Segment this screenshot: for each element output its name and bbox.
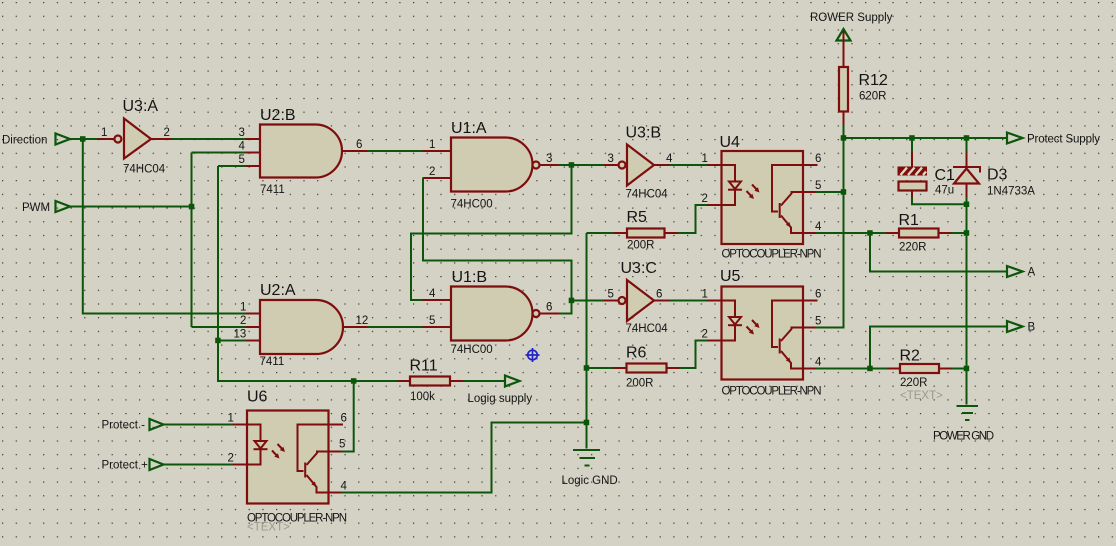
svg-text:U2:B: U2:B xyxy=(260,107,296,124)
wire B branch xyxy=(870,327,1007,369)
wire U2:B output to U1:A pin1 xyxy=(367,150,423,152)
svg-text:4: 4 xyxy=(239,141,246,153)
svg-text:4: 4 xyxy=(666,153,673,165)
svg-text:Protect -: Protect - xyxy=(102,420,146,432)
inverter U3:B xyxy=(604,125,673,201)
ground Logic GND xyxy=(562,450,618,487)
svg-text:Logic GND: Logic GND xyxy=(562,475,618,487)
svg-text:5: 5 xyxy=(815,180,821,192)
optocoupler U4 xyxy=(702,134,823,261)
resistor R6 xyxy=(614,345,680,390)
ground POWER GND xyxy=(933,406,994,443)
svg-text:5: 5 xyxy=(239,154,245,166)
svg-text:6: 6 xyxy=(341,413,347,425)
wire R5 left down Logic GND rail xyxy=(587,233,615,449)
svg-text:200R: 200R xyxy=(626,378,654,390)
svg-text:U1:A: U1:A xyxy=(451,120,487,137)
svg-text:620R: 620R xyxy=(859,91,887,103)
svg-text:U4: U4 xyxy=(720,134,741,151)
svg-text:U5: U5 xyxy=(720,268,741,285)
capacitor C1 xyxy=(898,138,967,204)
svg-text:POWER GND: POWER GND xyxy=(933,431,994,443)
input port Protect - xyxy=(102,419,164,432)
resistor R12 xyxy=(839,31,888,125)
svg-text:U3:B: U3:B xyxy=(626,125,662,142)
wire junction down to U6 pin5 xyxy=(341,381,354,452)
junction R12 node xyxy=(841,135,847,141)
wire U2:B pin5 to U2:A pin13 vertical xyxy=(218,166,246,341)
svg-text:1: 1 xyxy=(240,302,246,314)
wire U1:B output node to U3:C input xyxy=(572,300,605,302)
junction U4 pin5 xyxy=(841,189,847,195)
svg-text:1N4733A: 1N4733A xyxy=(987,186,1035,198)
resistor R2 xyxy=(887,348,952,403)
wire U6 pin4 to Logic GND rail xyxy=(341,423,587,493)
wire Direction node down to U2:A pin1 xyxy=(83,139,246,314)
input port Protect + xyxy=(102,459,164,472)
svg-text:3: 3 xyxy=(239,127,245,139)
wire U3:C output to U5 pin1 xyxy=(670,300,708,302)
NAND gate U1:B xyxy=(423,269,560,356)
svg-text:OPTOCOUPLER-NPN: OPTOCOUPLER-NPN xyxy=(722,249,822,261)
junction R2 left xyxy=(867,366,873,372)
wire PWM to vertical xyxy=(70,206,192,208)
svg-text:Protect Supply: Protect Supply xyxy=(1027,134,1100,146)
wire node down to U4 pin5 and U5 pin5 xyxy=(816,138,844,328)
svg-text:R11: R11 xyxy=(410,358,438,375)
svg-text:47u: 47u xyxy=(935,185,954,197)
wire Direction to U3:A input xyxy=(68,138,97,140)
junction C1 top xyxy=(909,135,915,141)
svg-text:5: 5 xyxy=(608,289,614,301)
wire R1 right to rail xyxy=(952,232,967,234)
svg-text:4: 4 xyxy=(815,357,822,369)
svg-text:C1: C1 xyxy=(935,167,956,184)
junction Logic GND rail xyxy=(584,420,590,426)
wire R12 bottom to node xyxy=(843,125,845,139)
AND gate U2:B xyxy=(239,107,368,196)
svg-text:6: 6 xyxy=(356,139,362,151)
svg-text:74HC00: 74HC00 xyxy=(451,199,493,211)
wire U2:A output to U1:B pin5 xyxy=(367,326,423,328)
optocoupler U6 xyxy=(228,389,348,534)
svg-text:6: 6 xyxy=(656,289,662,301)
svg-text:100k: 100k xyxy=(410,391,435,403)
svg-text:Protect +: Protect + xyxy=(102,460,149,472)
svg-text:12: 12 xyxy=(356,315,369,327)
origin marker xyxy=(526,348,540,362)
wire U1:A output to U3:B input xyxy=(559,164,605,166)
svg-text:PWM: PWM xyxy=(22,202,50,214)
svg-text:Direction: Direction xyxy=(2,135,47,147)
input port PWM xyxy=(22,201,70,214)
svg-text:220R: 220R xyxy=(899,242,927,254)
wire PWM vertical to U2:B pin4 and U2:A pin2 xyxy=(192,153,247,328)
wire R11 right to Logig supply port xyxy=(463,380,505,382)
wire U1:B output jog xyxy=(559,301,572,314)
svg-text:B: B xyxy=(1028,322,1036,334)
svg-text:3: 3 xyxy=(546,153,552,165)
svg-text:2: 2 xyxy=(228,453,234,465)
svg-text:U6: U6 xyxy=(247,389,268,406)
svg-text:Logig supply: Logig supply xyxy=(468,393,533,405)
wire power gnd rail down xyxy=(966,204,968,404)
svg-text:2: 2 xyxy=(702,193,708,205)
svg-text:1: 1 xyxy=(429,139,435,151)
svg-text:1: 1 xyxy=(228,413,234,425)
wire U3:B output to U4 pin1 xyxy=(670,164,708,166)
svg-text:R1: R1 xyxy=(899,212,920,229)
svg-text:220R: 220R xyxy=(900,377,928,389)
wire R2 right to rail xyxy=(952,368,967,370)
output port B xyxy=(1007,321,1036,334)
svg-text:R12: R12 xyxy=(859,72,888,89)
input port Direction xyxy=(2,134,70,147)
svg-text:1: 1 xyxy=(702,289,708,301)
svg-text:6: 6 xyxy=(815,289,821,301)
junction PWM node xyxy=(189,204,195,210)
wire U2:A pin13 node down to R11 xyxy=(218,341,397,382)
svg-text:4: 4 xyxy=(341,481,348,493)
svg-text:7411: 7411 xyxy=(260,356,285,368)
svg-text:5: 5 xyxy=(815,316,821,328)
wire R6 right to U5 pin2 xyxy=(680,341,708,369)
svg-text:5: 5 xyxy=(339,439,345,451)
svg-text:200R: 200R xyxy=(627,240,655,252)
wire A branch xyxy=(870,233,1007,272)
svg-text:6: 6 xyxy=(815,153,821,165)
AND gate U2:A xyxy=(234,282,369,368)
svg-text:<TEXT>: <TEXT> xyxy=(900,390,943,402)
svg-text:2: 2 xyxy=(429,166,435,178)
svg-text:U2:A: U2:A xyxy=(260,282,296,299)
resistor R5 xyxy=(614,209,678,252)
wire U5 pin4 to R2 xyxy=(816,368,888,370)
junction R11 wire to U6 pin5 xyxy=(351,378,357,384)
svg-text:<TEXT>: <TEXT> xyxy=(247,522,290,534)
junction Direction node xyxy=(80,136,86,142)
svg-text:1: 1 xyxy=(702,153,708,165)
svg-text:2: 2 xyxy=(164,127,170,139)
optocoupler U5 xyxy=(702,268,823,398)
output port Logig supply xyxy=(468,376,533,406)
zener diode D3 xyxy=(953,138,1035,204)
svg-text:5: 5 xyxy=(429,315,435,327)
wire Protect Supply rail xyxy=(844,137,1008,139)
output port A xyxy=(1007,266,1036,279)
wire Protect- to U6 pin1 xyxy=(164,424,233,426)
svg-text:7411: 7411 xyxy=(260,184,285,196)
output port Protect Supply xyxy=(1007,133,1100,146)
wire U4 pin4 to R1 xyxy=(816,232,887,234)
svg-text:74HC04: 74HC04 xyxy=(626,189,669,201)
junction U1:A output node xyxy=(569,162,575,168)
junction R6 on GND rail xyxy=(584,365,590,371)
junction R1 left xyxy=(867,230,873,236)
wire U3:A output to U2:B pin3 xyxy=(151,138,172,140)
svg-text:74HC04: 74HC04 xyxy=(626,323,669,335)
junction C1/D3 bottom node xyxy=(964,202,970,208)
svg-text:4: 4 xyxy=(815,221,822,233)
wire R5 right to U4 pin2 xyxy=(678,205,708,233)
wire R6 left to GND rail xyxy=(587,367,614,369)
junction U2:A pin13 node xyxy=(215,338,221,344)
resistor R11 xyxy=(397,358,463,404)
svg-text:U3:A: U3:A xyxy=(123,98,159,115)
svg-text:6: 6 xyxy=(546,302,552,314)
svg-text:R2: R2 xyxy=(900,348,921,365)
svg-text:R6: R6 xyxy=(626,345,647,362)
svg-text:74HC00: 74HC00 xyxy=(451,344,493,356)
wire U1:A output down to U1:B pin4 xyxy=(411,165,572,300)
svg-text:74HC04: 74HC04 xyxy=(123,164,166,176)
svg-text:2: 2 xyxy=(240,315,246,327)
NAND gate U1:A xyxy=(423,120,559,211)
svg-text:1: 1 xyxy=(101,127,107,139)
svg-text:2: 2 xyxy=(702,329,708,341)
power port ROWER Supply xyxy=(810,12,893,41)
inverter U3:C xyxy=(604,260,670,335)
junction D3 top xyxy=(964,135,970,141)
inverter U3:A xyxy=(97,98,170,176)
svg-text:OPTOCOUPLER-NPN: OPTOCOUPLER-NPN xyxy=(722,386,822,398)
svg-text:13: 13 xyxy=(234,329,247,341)
svg-text:A: A xyxy=(1028,267,1036,279)
svg-text:R5: R5 xyxy=(627,209,648,226)
junction R2 right xyxy=(964,366,970,372)
resistor R1 xyxy=(886,212,952,254)
svg-text:U1:B: U1:B xyxy=(452,269,488,286)
junction U1:B output node xyxy=(569,298,575,304)
svg-text:4: 4 xyxy=(429,288,436,300)
svg-text:U3:C: U3:C xyxy=(621,260,657,277)
svg-text:3: 3 xyxy=(608,153,614,165)
junction R1 right xyxy=(964,230,970,236)
svg-text:ROWER Supply: ROWER Supply xyxy=(810,12,893,24)
wire Protect+ to U6 pin2 xyxy=(164,464,233,466)
wire U1:A pin2 feedback from U1:B output xyxy=(423,178,572,301)
svg-text:D3: D3 xyxy=(987,167,1008,184)
